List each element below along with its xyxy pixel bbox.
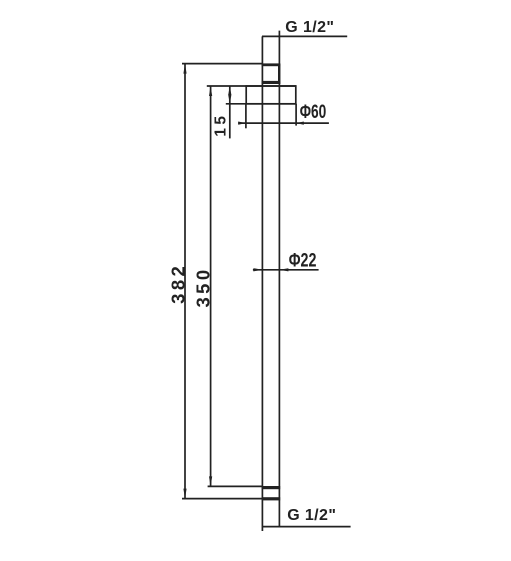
tube right edge thick section bbox=[278, 64, 280, 84]
shower arm tube right edge bbox=[278, 31, 280, 527]
leader line G 1/2 bottom bbox=[262, 526, 351, 528]
flange extension line right bbox=[295, 104, 297, 126]
dimension line 350 bbox=[210, 86, 212, 486]
flange body bbox=[246, 86, 296, 104]
arrowhead 382 bottom bbox=[183, 489, 186, 499]
svg-text:382: 382 bbox=[168, 263, 189, 304]
dimension line 382 bbox=[184, 64, 186, 499]
flange top edge extended bbox=[207, 85, 296, 87]
shower arm tube left edge bbox=[261, 36, 263, 531]
thread junction thick band bottom 1 bbox=[262, 486, 280, 489]
arrowhead phi22 right bbox=[279, 268, 288, 271]
thread junction thick band top 1 bbox=[262, 63, 281, 66]
svg-text:350: 350 bbox=[192, 266, 213, 307]
thread junction thick band bottom 2 bbox=[262, 497, 280, 500]
svg-text:Φ60: Φ60 bbox=[300, 102, 327, 123]
leader line G 1/2 top bbox=[262, 35, 347, 37]
dimension line 15 bbox=[229, 86, 231, 138]
extension line 382 top bbox=[182, 63, 262, 65]
arrowhead phi60 right bbox=[296, 122, 304, 125]
arrowhead 350 bottom bbox=[209, 476, 212, 486]
flange bottom edge extended bbox=[226, 103, 296, 105]
flange extension line left bbox=[245, 104, 247, 129]
dimension line phi22 bbox=[253, 269, 319, 271]
extension line 382 bottom bbox=[182, 498, 262, 500]
svg-text:G 1/2": G 1/2" bbox=[285, 19, 334, 36]
svg-text:G 1/2": G 1/2" bbox=[287, 507, 336, 524]
arrowhead 382 top bbox=[183, 64, 186, 74]
arrowhead 350 top bbox=[209, 86, 212, 96]
dimension line phi60 bbox=[238, 122, 329, 124]
arrowhead 15 top bbox=[228, 86, 231, 95]
thread junction thick band top 2 bbox=[262, 81, 281, 84]
arrowhead phi60 left bbox=[238, 122, 246, 125]
svg-text:Φ22: Φ22 bbox=[289, 251, 317, 272]
svg-text:15: 15 bbox=[213, 113, 230, 137]
arrowhead 15 bottom bbox=[228, 95, 231, 104]
extension line 350 bottom bbox=[208, 485, 262, 487]
arrowhead phi22 left bbox=[253, 268, 262, 271]
